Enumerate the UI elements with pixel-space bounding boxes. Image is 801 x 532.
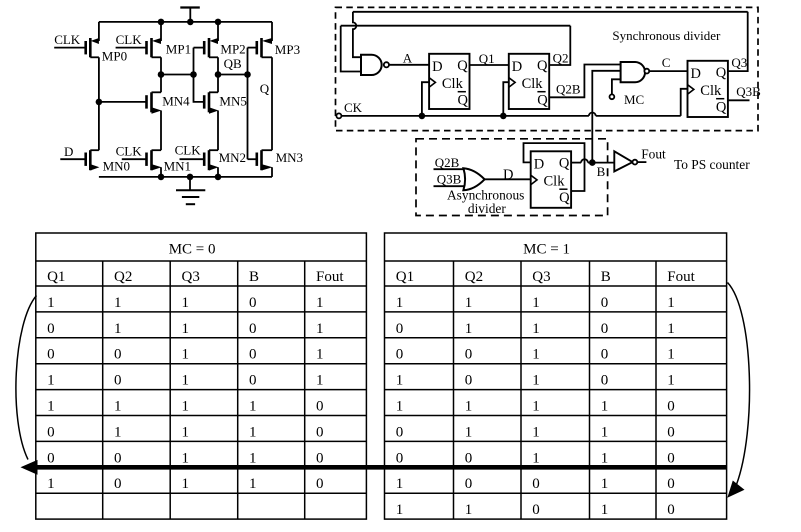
- svg-text:0: 0: [114, 450, 122, 466]
- svg-text:1: 1: [249, 476, 257, 492]
- inverter U1 bubble: [633, 160, 638, 165]
- svg-text:1: 1: [316, 347, 324, 363]
- table MC=0 outer border: [36, 233, 367, 519]
- wire Q3 output: [728, 12, 748, 71]
- svg-text:CK: CK: [344, 100, 363, 115]
- inverter U1 body: [614, 151, 632, 171]
- nand G1 output bubble: [384, 62, 389, 67]
- nand gate G1 body: [361, 55, 382, 75]
- svg-text:1: 1: [396, 295, 404, 311]
- svg-text:0: 0: [465, 373, 473, 389]
- svg-text:1: 1: [396, 476, 404, 492]
- transistor MP3 gate wire: [248, 47, 257, 49]
- flip-flop FF2 pin Qbar overbar: [537, 91, 545, 93]
- svg-text:0: 0: [316, 424, 324, 440]
- wire Q3 feedback top line: [353, 11, 748, 13]
- transistor MN3 gate bar: [255, 153, 258, 166]
- svg-text:1: 1: [114, 295, 122, 311]
- svg-text:1: 1: [465, 502, 473, 518]
- svg-text:1: 1: [667, 373, 675, 389]
- right wrap-around arrowhead: [727, 481, 744, 498]
- flip-flop FF4 box: [531, 151, 571, 208]
- table MC=1 row line 5: [385, 415, 727, 417]
- table MC=0 column line 3: [237, 261, 239, 519]
- svg-text:Clk: Clk: [522, 76, 544, 92]
- VDD rail junction at MP2: [215, 19, 222, 26]
- svg-text:1: 1: [114, 321, 122, 337]
- transistor MP2 channel bar: [208, 38, 211, 57]
- CK junction at FF1 riser: [419, 113, 426, 120]
- svg-text:1: 1: [182, 476, 190, 492]
- svg-text:Q: Q: [537, 58, 548, 74]
- svg-text:1: 1: [182, 399, 190, 415]
- node n2 junction at MN4 drain: [158, 71, 165, 78]
- svg-text:Synchronous divider: Synchronous divider: [612, 28, 721, 43]
- transistor MP0 gate wire: [54, 47, 85, 49]
- wire Q3B async input: [434, 185, 465, 187]
- transistor MN3 channel bar: [260, 150, 263, 170]
- svg-text:1: 1: [249, 450, 257, 466]
- svg-text:0: 0: [114, 476, 122, 492]
- svg-text:Q2B: Q2B: [556, 82, 581, 97]
- node B junction: [589, 159, 596, 166]
- thick wrap line with left arrowhead: [33, 465, 727, 470]
- svg-text:QB: QB: [224, 56, 242, 71]
- transistor MN5 arrow: [209, 107, 219, 113]
- table MC=1 row line 1: [385, 311, 727, 313]
- transistor MP2 source lead: [217, 22, 219, 41]
- svg-text:1: 1: [601, 424, 609, 440]
- svg-text:0: 0: [667, 424, 675, 440]
- table MC=0 row line 1: [36, 311, 367, 313]
- table MC=0 row line 3: [36, 363, 367, 365]
- svg-text:Asynchronous: Asynchronous: [447, 187, 524, 202]
- transistor MP0 drain lead: [90, 56, 99, 58]
- flip-flop FF3 clk triangle: [688, 85, 694, 95]
- svg-text:1: 1: [114, 399, 122, 415]
- svg-text:1: 1: [532, 295, 540, 311]
- flip-flop FF3 box: [688, 61, 728, 117]
- svg-text:MP0: MP0: [102, 49, 127, 64]
- flip-flop FF1 pin Qbar overbar: [458, 91, 466, 93]
- svg-text:CLK: CLK: [116, 32, 143, 47]
- svg-text:1: 1: [667, 347, 675, 363]
- flip-flop FF4 clk triangle: [531, 175, 537, 185]
- svg-text:0: 0: [601, 347, 609, 363]
- svg-text:0: 0: [601, 373, 609, 389]
- table MC=1 outer border: [385, 233, 727, 519]
- table MC=1 row line 3: [385, 363, 727, 365]
- table MC=0 header row divider: [36, 260, 367, 262]
- svg-text:0: 0: [396, 450, 404, 466]
- svg-text:CLK: CLK: [116, 144, 143, 159]
- svg-text:Q: Q: [458, 93, 469, 109]
- svg-text:MC = 0: MC = 0: [169, 242, 216, 258]
- transistor MP3 drain lead: [262, 56, 273, 58]
- wire FF1 clk riser: [422, 82, 429, 116]
- svg-text:CLK: CLK: [54, 32, 81, 47]
- table MC=1 column line 2: [520, 261, 522, 519]
- wire node B riser to G2 input: [592, 71, 620, 163]
- table MC=0 column line 4: [304, 261, 306, 519]
- nand G2 output bubble: [644, 69, 649, 74]
- svg-text:B: B: [601, 269, 611, 285]
- svg-text:0: 0: [47, 347, 55, 363]
- svg-text:D: D: [512, 59, 522, 75]
- svg-text:1: 1: [532, 373, 540, 389]
- svg-text:0: 0: [316, 399, 324, 415]
- svg-text:divider: divider: [468, 201, 506, 216]
- svg-text:Q1: Q1: [479, 51, 495, 66]
- transistor MP3 arrow: [262, 38, 272, 44]
- transistor MN1 channel bar: [150, 150, 153, 170]
- svg-text:To PS counter: To PS counter: [674, 157, 750, 172]
- svg-text:0: 0: [249, 347, 257, 363]
- transistor MN1 drain lead: [152, 149, 162, 151]
- svg-text:Q3: Q3: [731, 55, 747, 70]
- transistor MP2 gate bar: [203, 41, 206, 54]
- transistor MP1 arrow: [152, 38, 161, 44]
- ground rail junction at ground stem: [187, 174, 194, 181]
- transistor MP2 drain lead: [209, 56, 218, 58]
- wire FF4 Qbar to D feedback loop: [524, 143, 585, 191]
- flip-flop FF1 clk triangle: [429, 78, 435, 88]
- node QB gate junction: [244, 71, 251, 78]
- svg-text:Q3: Q3: [532, 269, 550, 285]
- svg-text:1: 1: [182, 450, 190, 466]
- svg-text:1: 1: [396, 399, 404, 415]
- left wrap-around curve: [16, 296, 37, 460]
- svg-text:1: 1: [396, 502, 404, 518]
- svg-text:0: 0: [316, 450, 324, 466]
- svg-text:1: 1: [601, 502, 609, 518]
- transistor MP2 gate wire: [194, 47, 205, 49]
- svg-text:1: 1: [601, 399, 609, 415]
- svg-text:0: 0: [47, 424, 55, 440]
- svg-text:Q: Q: [559, 190, 570, 206]
- svg-text:1: 1: [249, 399, 257, 415]
- table MC=1 row line 8: [385, 492, 727, 494]
- svg-text:1: 1: [667, 321, 675, 337]
- svg-text:CLK: CLK: [175, 143, 202, 158]
- flip-flop FF4 pin Qbar overbar: [559, 188, 567, 190]
- svg-text:1: 1: [249, 424, 257, 440]
- svg-text:0: 0: [396, 347, 404, 363]
- table MC=0 column line 2: [169, 261, 171, 519]
- svg-text:0: 0: [114, 373, 122, 389]
- wire MN5 source to MN2 drain: [217, 111, 219, 151]
- synchronous divider dashed border: [336, 7, 759, 130]
- svg-text:D: D: [432, 59, 442, 75]
- wire MN2 source to ground rail: [217, 167, 219, 177]
- table MC=1 column line 1: [453, 261, 455, 519]
- svg-text:1: 1: [465, 399, 473, 415]
- svg-text:1: 1: [316, 321, 324, 337]
- wire MC to G2: [612, 79, 621, 94]
- transistor MN0 gate wire: [60, 158, 85, 160]
- svg-text:1: 1: [316, 295, 324, 311]
- svg-text:1: 1: [532, 321, 540, 337]
- transistor MN2 drain lead: [209, 149, 218, 151]
- svg-text:MP1: MP1: [166, 42, 191, 57]
- svg-text:Q: Q: [716, 65, 727, 81]
- wire Q2B async input: [434, 168, 465, 170]
- wire CK line: [341, 115, 589, 117]
- svg-text:D: D: [691, 66, 701, 82]
- wire Q2 feedback line: [341, 25, 571, 27]
- wire Q1 (FF1 Q to FF2 D): [470, 64, 509, 66]
- table MC=0 row line 2: [36, 337, 367, 339]
- svg-text:1: 1: [532, 450, 540, 466]
- svg-text:MN5: MN5: [219, 94, 246, 109]
- transistor MP1 source lead: [160, 22, 162, 41]
- svg-text:1: 1: [182, 295, 190, 311]
- svg-text:Clk: Clk: [544, 174, 566, 190]
- svg-text:MN1: MN1: [164, 159, 191, 174]
- MC input terminal: [610, 94, 615, 99]
- transistor MP0 channel bar: [89, 38, 92, 57]
- svg-text:0: 0: [47, 321, 55, 337]
- svg-text:Fout: Fout: [667, 269, 695, 285]
- wire G1 input 1 (Q3 feedback): [353, 12, 361, 57]
- svg-text:MC: MC: [624, 92, 644, 107]
- svg-text:0: 0: [667, 399, 675, 415]
- transistor MN3 gate wire: [248, 158, 257, 160]
- wire FF4 Q output to node B: [571, 162, 581, 164]
- svg-text:1: 1: [182, 347, 190, 363]
- flip-flop FF1 box: [429, 54, 469, 109]
- svg-text:1: 1: [532, 347, 540, 363]
- svg-text:0: 0: [396, 424, 404, 440]
- wire Fout: [637, 161, 646, 163]
- svg-text:0: 0: [667, 450, 675, 466]
- CK input terminal: [336, 113, 341, 118]
- svg-text:C: C: [662, 55, 671, 70]
- svg-text:0: 0: [532, 476, 540, 492]
- table MC=1 column line 3: [589, 261, 591, 519]
- CK junction at FF2 riser: [500, 113, 507, 120]
- svg-text:1: 1: [667, 295, 675, 311]
- flip-flop FF2 box: [509, 54, 549, 109]
- svg-text:1: 1: [601, 450, 609, 466]
- wire Q2B (FF2 Qbar to G2 input): [549, 65, 620, 98]
- svg-text:Clk: Clk: [700, 83, 722, 99]
- transistor MN1 gate wire: [122, 158, 147, 160]
- transistor MP1 channel bar: [150, 38, 153, 57]
- wire MN3 source to ground rail: [271, 167, 273, 177]
- node n2 gate junction: [190, 71, 197, 78]
- asynchronous divider dashed border: [416, 139, 608, 216]
- svg-text:0: 0: [601, 295, 609, 311]
- table MC=1 row line 2: [385, 337, 727, 339]
- svg-text:Q2: Q2: [465, 269, 483, 285]
- svg-text:1: 1: [465, 321, 473, 337]
- transistor MN2 channel bar: [208, 150, 211, 170]
- nand gate G2 body: [621, 62, 645, 82]
- transistor MN5 gate bar: [203, 95, 206, 108]
- table MC=0 row line 6: [36, 440, 367, 442]
- svg-text:MN0: MN0: [103, 159, 130, 174]
- wire MP3 drain to MN3 drain (node Q): [271, 57, 273, 150]
- wire C (G2 output to FF3 D): [649, 70, 687, 72]
- svg-text:Q3B: Q3B: [736, 84, 761, 99]
- ground symbol: [189, 177, 191, 190]
- svg-text:Q3: Q3: [182, 269, 200, 285]
- wire MP1 drain to MN4 drain: [160, 57, 162, 92]
- transistor MP2 arrow: [210, 38, 219, 44]
- table MC=0 row line 8: [36, 492, 367, 494]
- svg-text:1: 1: [182, 373, 190, 389]
- svg-text:D: D: [64, 144, 73, 159]
- wire node n2 to MP2/MN5 gates: [161, 74, 194, 76]
- transistor MN5 drain lead: [209, 91, 218, 93]
- svg-text:Q2: Q2: [114, 269, 132, 285]
- wire G1 input 2 (Q2 feedback): [341, 26, 361, 72]
- node QB junction at MP2 drain: [215, 71, 222, 78]
- transistor MN4 channel bar: [150, 92, 153, 112]
- transistor MN2 arrow: [209, 164, 219, 170]
- VDD rail: [99, 21, 272, 23]
- svg-text:D: D: [503, 167, 513, 183]
- svg-text:0: 0: [667, 502, 675, 518]
- wire Q3B output stub: [728, 99, 750, 101]
- flip-flop FF3 pin Qbar overbar: [716, 98, 724, 100]
- svg-text:1: 1: [47, 399, 55, 415]
- svg-text:Q: Q: [260, 81, 270, 96]
- node n1 junction: [96, 99, 103, 106]
- svg-text:1: 1: [182, 424, 190, 440]
- svg-text:B: B: [597, 164, 606, 179]
- svg-text:0: 0: [249, 321, 257, 337]
- wire FF3 clk riser: [681, 89, 688, 116]
- wire MP0 drain to MN0 drain (node n1): [98, 57, 100, 150]
- svg-text:1: 1: [465, 295, 473, 311]
- wire D (G3 output to FF4 clk): [485, 178, 531, 180]
- ground rail junction at MN1: [158, 174, 165, 181]
- svg-text:0: 0: [47, 450, 55, 466]
- svg-text:1: 1: [601, 476, 609, 492]
- transistor MP1 drain lead: [152, 56, 162, 58]
- transistor MN1 gate bar: [145, 153, 148, 166]
- svg-text:MP3: MP3: [275, 42, 300, 57]
- transistor MN0 channel bar: [89, 150, 92, 170]
- or gate G3 body: [463, 168, 484, 190]
- ground rail: [99, 176, 272, 178]
- svg-text:Q: Q: [559, 156, 570, 172]
- svg-text:1: 1: [532, 424, 540, 440]
- svg-text:1: 1: [532, 399, 540, 415]
- hop where Q wire crosses feedback loop: [581, 159, 588, 162]
- svg-text:1: 1: [47, 476, 55, 492]
- transistor MN5 channel bar: [208, 92, 211, 112]
- wire node QB to MP3/MN3 gates: [218, 74, 248, 76]
- svg-text:Q: Q: [537, 93, 548, 109]
- svg-text:MC = 1: MC = 1: [523, 242, 570, 258]
- transistor MP3 source lead: [271, 22, 273, 41]
- svg-text:Q2B: Q2B: [435, 155, 460, 170]
- svg-text:0: 0: [465, 347, 473, 363]
- right wrap-around curve: [728, 283, 750, 485]
- svg-text:B: B: [249, 269, 259, 285]
- table MC=0 column line 1: [102, 261, 104, 519]
- wire FF2 clk riser: [503, 82, 509, 116]
- svg-text:1: 1: [47, 295, 55, 311]
- transistor MP1 gate bar: [145, 41, 148, 54]
- wire Q2 (FF2 Q to feedback line): [549, 26, 570, 65]
- wire A (G1 output to FF1 D): [389, 64, 429, 66]
- transistor MN0 arrow: [90, 164, 99, 170]
- VDD rail junction at MP1: [158, 19, 165, 26]
- svg-text:0: 0: [465, 476, 473, 492]
- hop where B riser crosses CK line: [589, 113, 596, 116]
- transistor MN1 arrow: [152, 164, 162, 170]
- transistor MN0 gate bar: [84, 153, 87, 166]
- svg-text:0: 0: [316, 476, 324, 492]
- transistor MN3 arrow: [262, 164, 273, 170]
- table MC=1 header row divider: [385, 260, 727, 262]
- svg-text:0: 0: [396, 321, 404, 337]
- svg-text:0: 0: [114, 347, 122, 363]
- svg-text:MP2: MP2: [220, 42, 245, 57]
- svg-text:Fout: Fout: [316, 269, 344, 285]
- svg-text:0: 0: [532, 502, 540, 518]
- transistor MN5 gate wire: [194, 75, 205, 102]
- transistor MP0 gate bar: [84, 41, 87, 54]
- transistor MN2 gate wire: [180, 158, 205, 160]
- svg-text:MN2: MN2: [219, 150, 246, 165]
- svg-text:Clk: Clk: [442, 76, 464, 92]
- svg-text:Q3B: Q3B: [437, 172, 462, 187]
- wire MP2 gate riser: [193, 48, 195, 75]
- wire MN1 source to ground rail: [160, 167, 162, 177]
- transistor MP0 source lead: [98, 22, 100, 41]
- svg-text:MN4: MN4: [162, 94, 190, 109]
- VDD supply symbol: [180, 6, 200, 8]
- svg-text:MN3: MN3: [276, 150, 303, 165]
- transistor MN2 gate bar: [203, 153, 206, 166]
- svg-text:1: 1: [465, 424, 473, 440]
- svg-text:A: A: [403, 51, 413, 66]
- table MC=0 row line 4: [36, 389, 367, 391]
- svg-text:1: 1: [182, 321, 190, 337]
- transistor MN4 drain lead: [152, 91, 162, 93]
- svg-text:0: 0: [667, 476, 675, 492]
- wire MP3/MN3 gate riser: [247, 48, 249, 160]
- transistor MN4 arrow: [152, 107, 162, 113]
- table MC=1 column line 4: [655, 261, 657, 519]
- transistor MN3 drain lead: [262, 149, 273, 151]
- svg-text:Q1: Q1: [396, 269, 414, 285]
- transistor MP3 gate bar: [255, 41, 258, 54]
- table MC=1 row line 4: [385, 389, 727, 391]
- svg-text:Q1: Q1: [47, 269, 65, 285]
- wire MN4 source to MN1 drain: [160, 111, 162, 151]
- transistor MP0 arrow: [91, 38, 99, 44]
- ground rail junction at MN2: [215, 174, 222, 181]
- svg-text:0: 0: [249, 295, 257, 311]
- svg-text:1: 1: [114, 424, 122, 440]
- transistor MP1 gate wire: [116, 47, 147, 49]
- svg-text:1: 1: [316, 373, 324, 389]
- VDD rail junction at VDD stem: [187, 19, 194, 26]
- svg-text:0: 0: [249, 373, 257, 389]
- svg-text:1: 1: [47, 373, 55, 389]
- wire MP2 drain to MN5 drain (node QB): [217, 57, 219, 92]
- svg-text:Fout: Fout: [641, 147, 666, 162]
- transistor MN0 drain lead: [90, 149, 99, 151]
- svg-text:D: D: [534, 156, 544, 172]
- svg-text:1: 1: [396, 373, 404, 389]
